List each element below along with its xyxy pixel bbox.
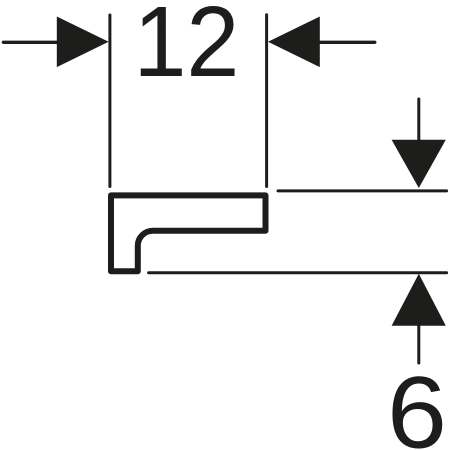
down arrowhead: [392, 140, 446, 188]
svg-text:6: 6: [387, 356, 447, 450]
left extension line: [108, 15, 111, 187]
down arrow stem wire: [417, 99, 420, 140]
up arrowhead: [392, 274, 446, 326]
right arrow tail wire: [320, 41, 375, 44]
profile outline: [111, 195, 266, 271]
right extension line: [265, 15, 268, 187]
up arrow stem wire: [417, 326, 420, 363]
right arrowhead: [268, 17, 320, 68]
svg-text:12: 12: [133, 0, 239, 98]
bottom reference line: [149, 271, 447, 274]
left arrowhead: [57, 17, 109, 68]
top reference line: [278, 189, 447, 192]
left arrow tail wire: [3, 41, 57, 44]
